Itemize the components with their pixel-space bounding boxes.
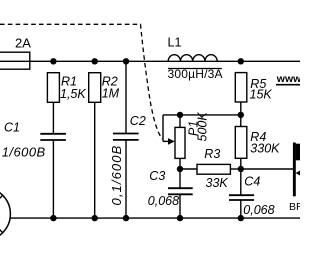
value 300uH/3A with overline [168, 68, 222, 70]
svg-text:0,1/600В: 0,1/600В [109, 145, 124, 206]
resistor R5 [235, 73, 247, 102]
capacitor C3 [168, 187, 193, 189]
junction: rail C4 [238, 215, 244, 221]
triac VS1 (clipped at right edge) [293, 143, 301, 197]
wire: C2 bottom to bottom rail [125, 140, 127, 218]
svg-text:33K: 33K [206, 176, 229, 190]
wire: C4 top lead [240, 169, 242, 195]
wire: R4 bottom to gate node [240, 158, 242, 169]
svg-text:1M: 1M [102, 87, 120, 101]
wire: C4 bottom to rail [240, 200, 242, 218]
svg-text:1,5K: 1,5K [60, 87, 86, 101]
wire: top rail y=61 [0, 60, 300, 62]
junction: R5/R4/P1 node [238, 112, 244, 118]
wire: C1 bottom to bottom rail [52, 140, 54, 218]
resistor R1 [47, 73, 59, 103]
junction: top of R1 [50, 58, 56, 64]
wire: C3 top lead [179, 169, 181, 188]
wire: C2 top lead [125, 61, 127, 133]
capacitor C1 [40, 133, 66, 135]
svg-text:L1: L1 [168, 36, 182, 50]
junction: P1 bottom / C3 node [177, 166, 183, 172]
wire: node to P1 top [163, 114, 241, 116]
junction: P1 top [177, 112, 183, 118]
junction: gate node [238, 166, 244, 172]
junction: rail C3 [177, 215, 183, 221]
mechanical link dashed line (switch to P1) [0, 24, 162, 139]
svg-text:330K: 330K [250, 141, 280, 155]
inductor L1 [168, 55, 217, 62]
wire: R1 bottom to C1 [52, 102, 54, 134]
wire: R3 to gate node [230, 168, 240, 170]
wire: node to R3 [180, 168, 197, 170]
junction: rail C2 [123, 215, 129, 221]
svg-text:BR: BR [289, 201, 300, 213]
capacitor C2 [113, 133, 139, 135]
resistor R4 [235, 127, 247, 159]
wire: R2 bottom to bottom rail [94, 102, 96, 218]
junction: top of C2 [123, 58, 129, 64]
wire: R5 bottom to node [240, 102, 242, 127]
svg-text:C1: C1 [4, 120, 20, 134]
junction: top of R2 [92, 58, 98, 64]
svg-text:0,068: 0,068 [148, 194, 179, 208]
fuse FU1 [0, 52, 30, 69]
svg-text:C2: C2 [130, 114, 146, 128]
wire: C3 bottom to rail [179, 194, 181, 218]
svg-text:300µH/3A: 300µH/3A [168, 67, 223, 81]
lamp HL1 (clipped at left edge) [0, 188, 10, 241]
resistor R3 [197, 164, 230, 174]
wire: bottom rail [10, 217, 300, 219]
capacitor C4 [229, 194, 254, 196]
junction: rail R2 [92, 215, 98, 221]
svg-text:0,068: 0,068 [243, 203, 274, 217]
svg-text:C4: C4 [244, 174, 260, 188]
potentiometer P1 [163, 115, 185, 169]
svg-text:www.r: www.r [276, 73, 300, 85]
resistor R2 [89, 73, 101, 103]
svg-text:2A: 2A [15, 36, 31, 51]
svg-text:500K: 500K [195, 112, 209, 142]
svg-text:0,1/600В: 0,1/600В [0, 144, 46, 159]
junction: top of R5 [238, 58, 244, 64]
svg-text:15K: 15K [250, 88, 273, 102]
svg-text:C3: C3 [149, 169, 165, 183]
wire: gate node to triac gate [241, 168, 293, 170]
svg-text:R3: R3 [204, 147, 220, 161]
junction: rail C1 [50, 215, 56, 221]
